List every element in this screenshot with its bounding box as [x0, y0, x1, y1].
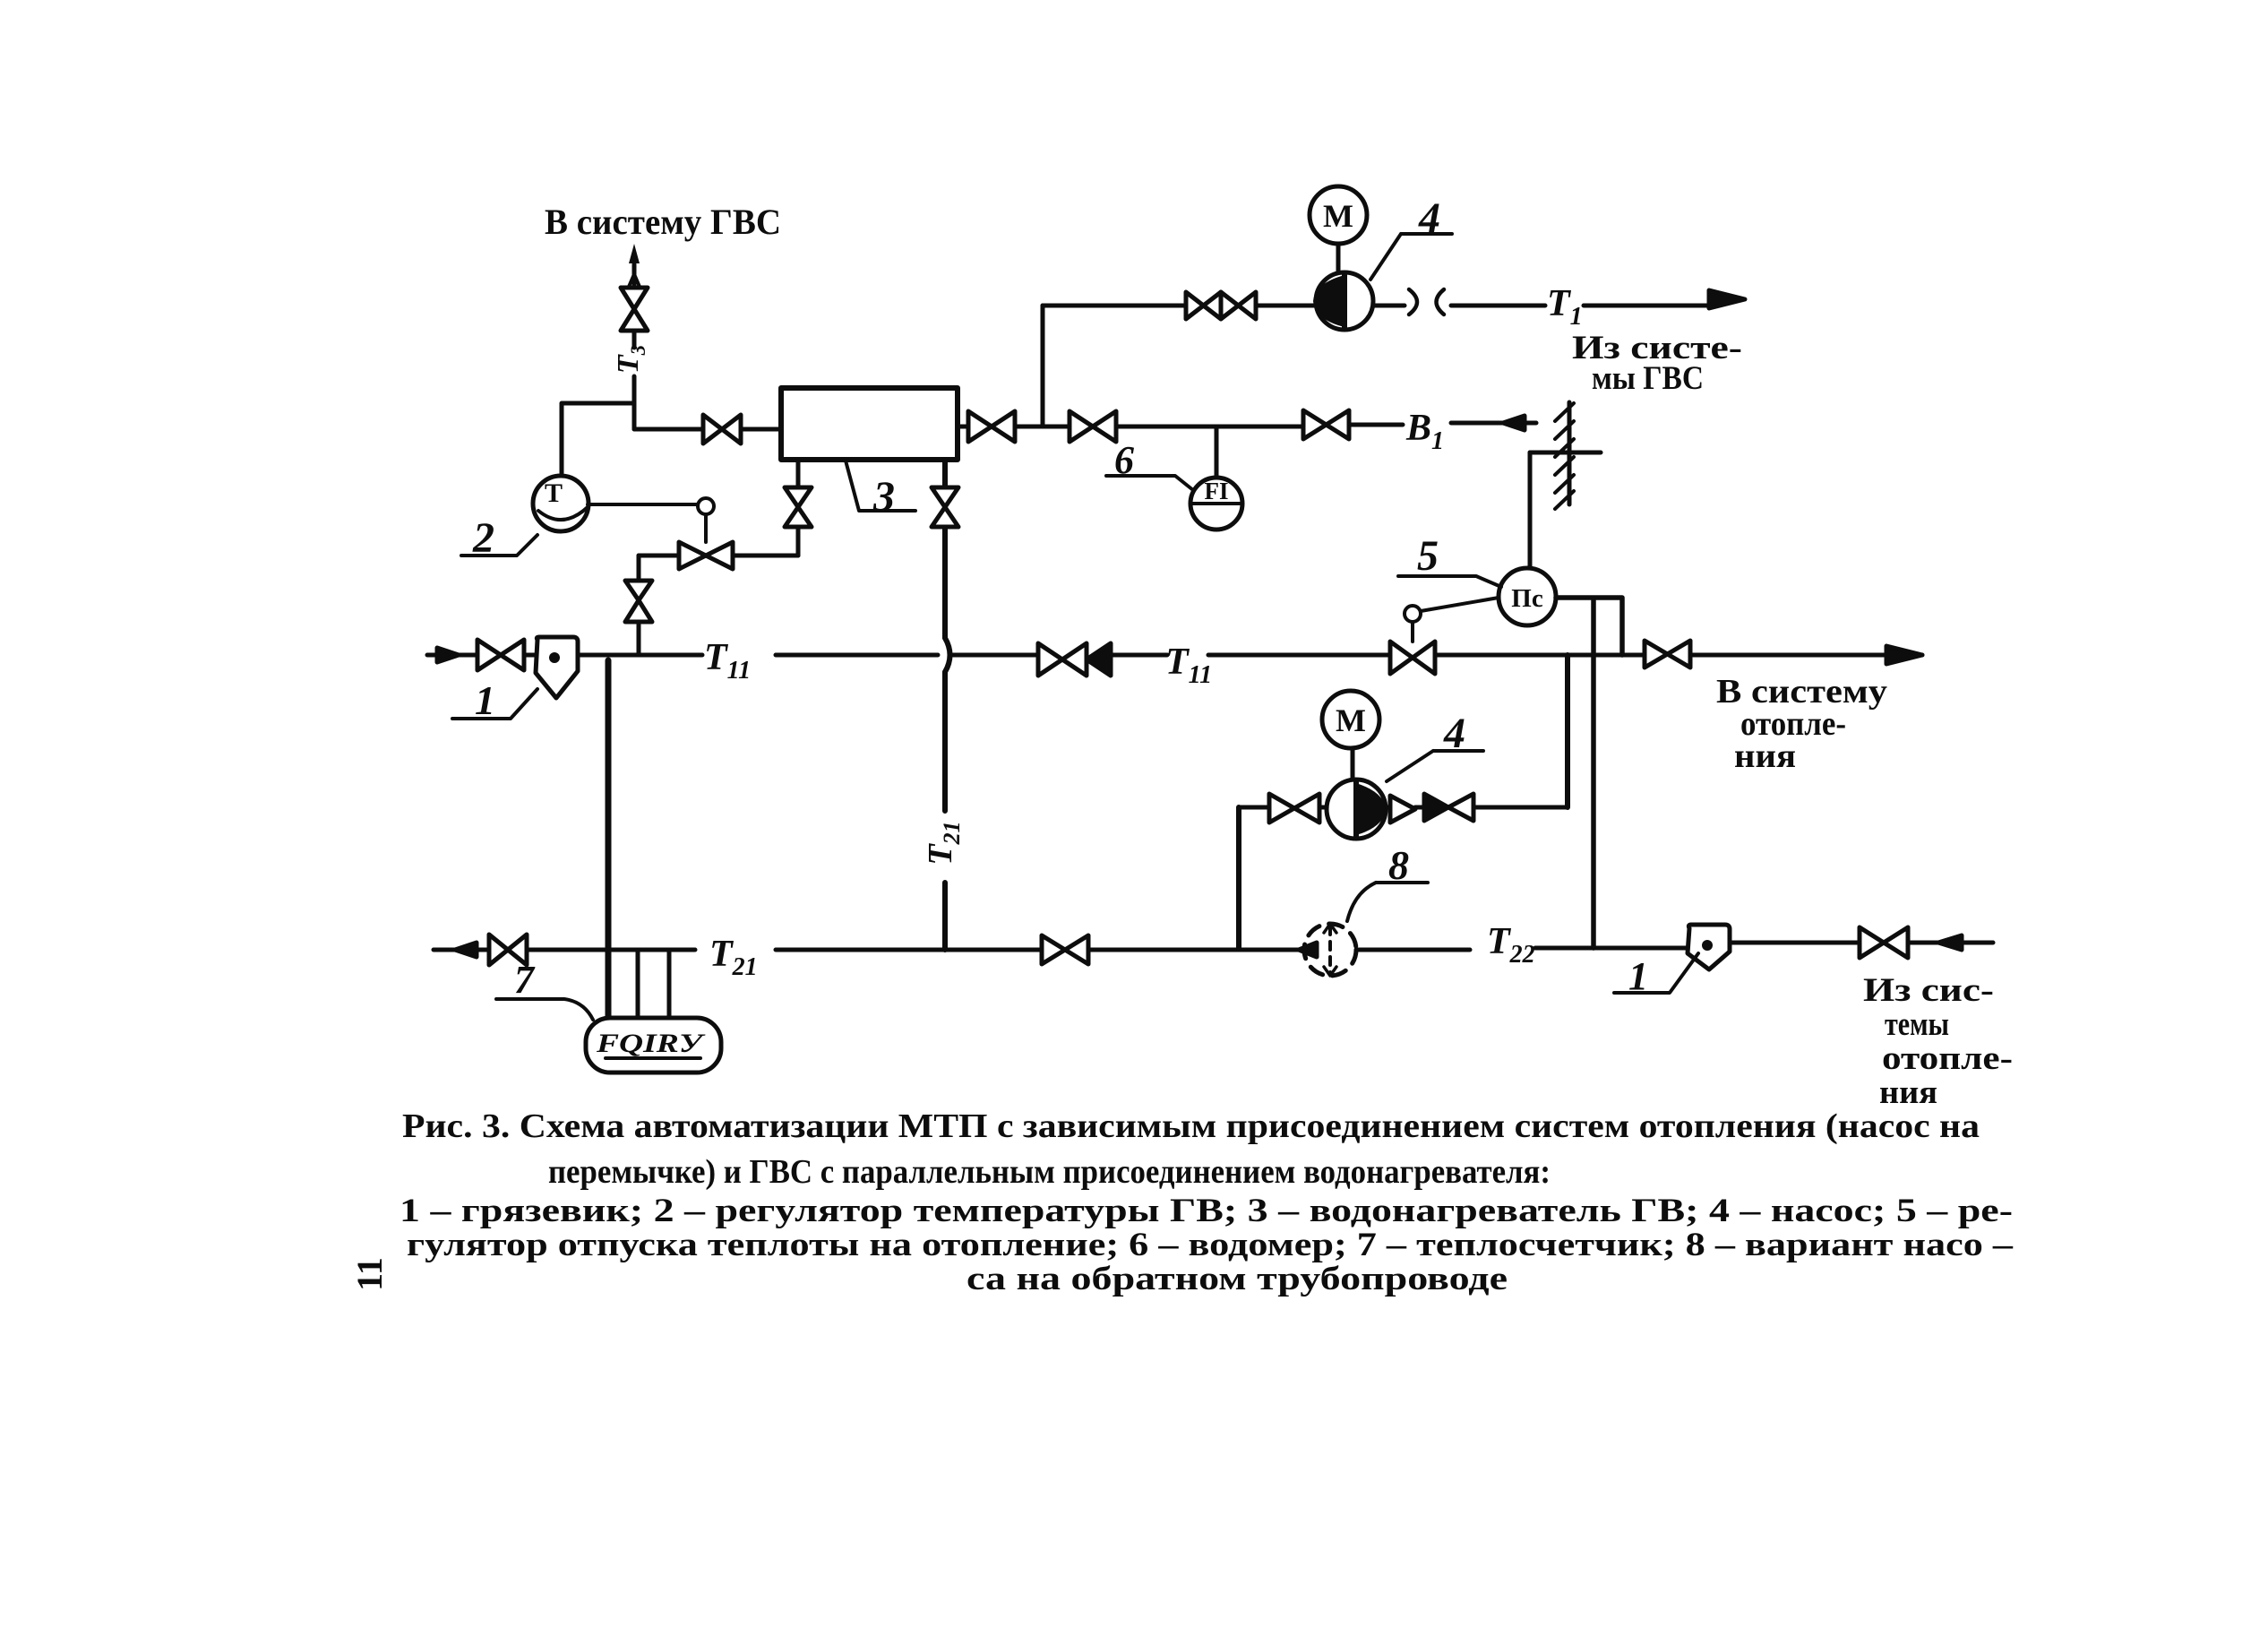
mud filter 1 (грязевик) left	[536, 637, 578, 698]
svg-text:6: 6	[1114, 438, 1134, 482]
arrow up to GVS system	[629, 244, 640, 263]
svg-text:11: 11	[349, 1257, 390, 1291]
svg-text:мы ГВС: мы ГВС	[1592, 360, 1704, 397]
svg-text:ния: ния	[1734, 737, 1796, 775]
leader label 4 lower	[1387, 751, 1483, 781]
svg-text:Из сис-: Из сис-	[1863, 972, 1994, 1009]
arrow from heating system	[1938, 935, 1962, 950]
svg-text:4: 4	[1418, 194, 1440, 242]
flexible insert after top pump	[1409, 289, 1444, 314]
svg-text:В систему ГВС: В систему ГВС	[545, 202, 781, 242]
motor M lower	[1322, 691, 1379, 748]
leader label 4 top	[1370, 234, 1452, 280]
wire branch to regulator 2	[562, 403, 634, 476]
arrow into pump variant 8	[1299, 943, 1317, 957]
wire FI drop	[1215, 426, 1219, 478]
leader label 1 right	[1614, 953, 1698, 993]
svg-text:1: 1	[1628, 954, 1648, 998]
valve HE inlet	[703, 415, 741, 444]
valve T21 mid	[1042, 935, 1088, 964]
wire sensor line to heat meter	[606, 660, 612, 1018]
leader label 6	[1106, 476, 1193, 490]
leader label 3	[846, 461, 915, 511]
leader label 2	[461, 535, 537, 556]
valve HE left drop	[785, 487, 812, 527]
heat meter 7 (теплосчетчик)	[586, 1018, 721, 1073]
wire top pump branch	[1043, 304, 1711, 308]
wire riser to top pump branch	[1041, 306, 1045, 426]
wire T11 supply main line	[427, 653, 1922, 658]
svg-text:перемычке) и ГВС с параллельны: перемычке) и ГВС с параллельным присоеди…	[548, 1153, 1551, 1191]
svg-text:Рис. 3. Схема автоматизации МТ: Рис. 3. Схема автоматизации МТП с зависи…	[402, 1107, 1980, 1145]
motor M top	[1310, 186, 1367, 244]
leader label 5	[1398, 576, 1501, 587]
wall anchor hatch	[1568, 402, 1572, 504]
svg-text:ния: ния	[1879, 1074, 1937, 1111]
wire HE left drop	[796, 460, 801, 556]
regulator 5 (ПС) circle	[1499, 568, 1556, 625]
svg-text:1 – грязевик; 2 – регулятор те: 1 – грязевик; 2 – регулятор температуры …	[399, 1193, 2013, 1229]
svg-text:4: 4	[1443, 710, 1465, 757]
pump 4 top (насос)	[1316, 272, 1373, 330]
valve on GVS riser	[621, 288, 648, 331]
control valve 5 on T11	[1390, 642, 1435, 674]
svg-text:отопле-: отопле-	[1882, 1040, 2013, 1077]
valve T22 right	[1860, 927, 1908, 958]
stem and knob of three-way valve	[704, 514, 708, 542]
wire HE inlet	[634, 427, 781, 432]
svg-text:Т: Т	[545, 478, 563, 508]
heat exchanger 3 (водонагреватель)	[781, 388, 958, 460]
wire lower pump branch	[1239, 806, 1568, 810]
valve T11 mid with check arrow	[1038, 643, 1087, 676]
wire GVS riser T3 vertical	[632, 264, 637, 429]
svg-text:FI: FI	[1205, 478, 1229, 504]
arrow T11 inlet	[437, 648, 459, 662]
valve bypass vertical	[625, 581, 652, 622]
wire knob to PS	[1421, 598, 1499, 611]
water meter 6 (водомер) FI	[1190, 478, 1242, 530]
svg-text:5: 5	[1417, 532, 1439, 580]
pump 4 lower (насос)	[1327, 780, 1386, 839]
valves before top pump	[1186, 292, 1221, 319]
leader label 7	[496, 999, 593, 1020]
svg-text:FQIRУ: FQIRУ	[596, 1029, 706, 1058]
leader label 1 left	[452, 689, 537, 719]
wire three-way valve run	[639, 554, 798, 558]
svg-text:2: 2	[472, 514, 494, 562]
valve HE right drop	[932, 487, 958, 527]
svg-text:1: 1	[475, 677, 495, 723]
wire bypass down to T11	[637, 556, 641, 655]
valve lower pump suction	[1269, 794, 1319, 823]
svg-text:са на обратном трубопроводе: са на обратном трубопроводе	[966, 1261, 1508, 1297]
check valve after lower pump	[1390, 796, 1415, 823]
svg-text:гулятор отпуска теплоты на ото: гулятор отпуска теплоты на отопление; 6 …	[407, 1227, 2014, 1263]
wire PS to T11/T22 risers	[1556, 598, 1622, 948]
leader label 8	[1347, 883, 1428, 921]
wire lower pump branch to T11	[1565, 655, 1570, 807]
svg-text:темы: темы	[1885, 1006, 1949, 1043]
three-way control valve of regulator 2	[679, 542, 733, 569]
pump variant 8 dashed circle	[1304, 924, 1356, 976]
valve B1 line second	[1303, 410, 1349, 439]
wire T21 taps to heat meter	[638, 950, 669, 1018]
valve T11 outlet	[1645, 641, 1690, 668]
arrow B1 incoming	[1503, 416, 1525, 430]
wire HE outlet / B1 line	[958, 423, 1536, 426]
arrow to heating system	[1886, 646, 1922, 664]
wire lower pump suction riser	[1236, 807, 1241, 948]
valve T11 inlet	[477, 640, 524, 670]
riser jog over T11	[945, 638, 950, 672]
wire T21 return main line	[434, 943, 1993, 950]
svg-text:7: 7	[514, 958, 536, 1002]
valve T21 left	[489, 935, 527, 965]
svg-text:8: 8	[1388, 842, 1409, 888]
arrow T1 to GVS	[1709, 290, 1745, 308]
valve B1 line	[1070, 411, 1116, 442]
svg-text:3: 3	[872, 473, 895, 521]
wire HE right drop / T21 riser	[942, 460, 948, 950]
valve HE outlet	[968, 411, 1015, 442]
regulator 2 temperature regulator circle	[533, 476, 588, 531]
svg-text:М: М	[1323, 198, 1353, 234]
wire wall to PS regulator	[1528, 452, 1533, 568]
svg-text:Пс: Пс	[1511, 584, 1543, 613]
mud filter 1 (грязевик) right	[1688, 925, 1730, 969]
arrow T21 outlet	[455, 943, 477, 957]
svg-text:М: М	[1336, 702, 1366, 738]
wire regulator 2 to knob	[588, 503, 698, 506]
